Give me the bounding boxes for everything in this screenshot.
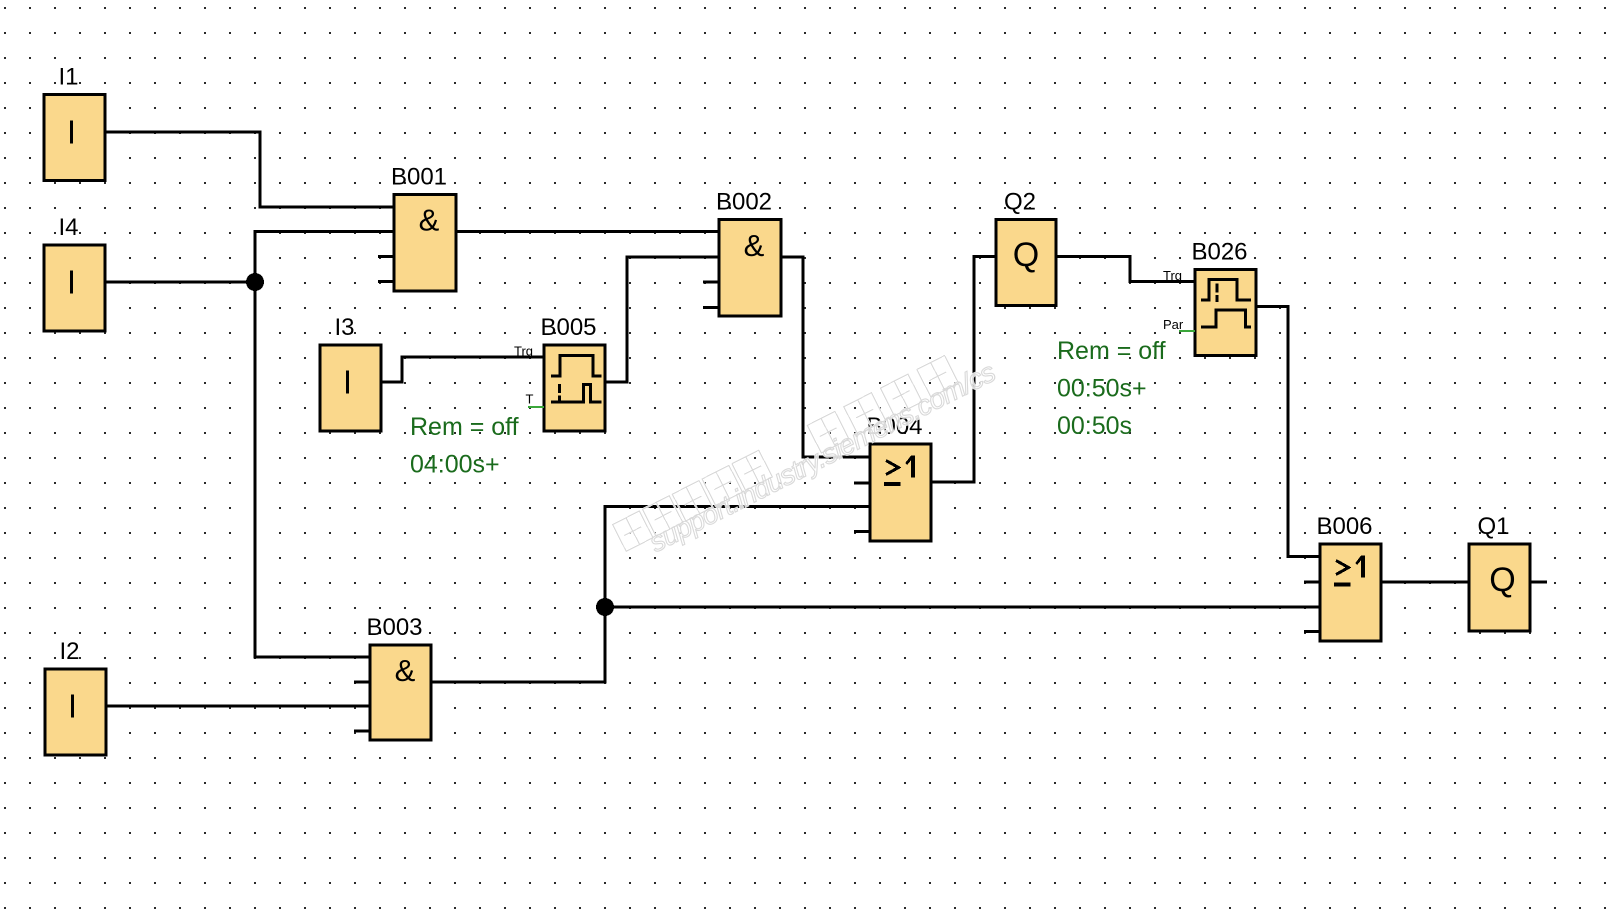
input I1	[44, 64, 105, 181]
input I2	[45, 638, 106, 755]
svg-text:B003: B003	[366, 614, 422, 641]
output Q1	[1469, 513, 1530, 631]
wire I4 to junction A	[105, 281, 255, 284]
svg-text:B026: B026	[1191, 239, 1247, 266]
parameter stub Par of B026	[1179, 330, 1195, 332]
wire junction A to B003 input1	[255, 282, 370, 657]
node A junction dot	[246, 273, 264, 291]
AND gate B003	[354, 614, 431, 740]
svg-text:B001: B001	[391, 164, 447, 191]
svg-text:Trg: Trg	[1163, 268, 1182, 283]
svg-text:&: &	[419, 203, 440, 238]
wire B026 output to B006 input1	[1256, 307, 1320, 557]
unused input stubs of B006	[1304, 582, 1320, 632]
svg-text:Q: Q	[1013, 236, 1039, 274]
svg-text:Trg: Trg	[514, 344, 533, 359]
parameter stub T of B005	[528, 406, 544, 408]
svg-text:00:50s+: 00:50s+	[1057, 375, 1147, 403]
wire I2 to B003 input3	[106, 705, 370, 708]
svg-text:Q: Q	[1489, 561, 1515, 599]
AND gate B002	[703, 189, 781, 317]
OR gate B004	[854, 413, 931, 541]
unused input stubs of B001	[378, 257, 394, 282]
svg-text:Par: Par	[1163, 317, 1184, 332]
svg-text:00:50s: 00:50s	[1057, 412, 1132, 440]
wire B002 output to B004 input1	[781, 257, 870, 457]
node B junction dot	[596, 598, 614, 616]
svg-text:I1: I1	[58, 64, 78, 91]
wire B004 output to Q2 input	[930, 257, 996, 483]
wire B006 output to Q1 input	[1381, 581, 1469, 584]
svg-text:I4: I4	[58, 214, 78, 241]
OR gate B006	[1304, 513, 1381, 641]
AND gate B001	[378, 164, 456, 292]
svg-text:I2: I2	[59, 638, 79, 665]
svg-text:Q1: Q1	[1477, 513, 1509, 540]
svg-text:B002: B002	[716, 189, 772, 216]
wire B005 output to B002 input2	[605, 257, 719, 382]
wire junction B to B006 input3	[605, 606, 1320, 609]
svg-text:I3: I3	[334, 314, 354, 341]
svg-text:&: &	[395, 653, 416, 688]
svg-text:Rem = off: Rem = off	[410, 413, 519, 441]
pulse generator B026	[1163, 239, 1256, 356]
unused input stubs of B002	[703, 282, 719, 308]
svg-text:Q2: Q2	[1004, 189, 1036, 216]
svg-text:04:00s+: 04:00s+	[410, 451, 500, 479]
svg-text:Rem = off: Rem = off	[1057, 337, 1166, 365]
input I4	[44, 214, 105, 331]
svg-text:B005: B005	[540, 314, 596, 341]
unused input stubs of B003	[354, 682, 370, 731]
svg-text:T: T	[526, 392, 534, 407]
svg-text:&: &	[744, 228, 765, 263]
wire Q2 output to B026 Trg	[1056, 257, 1195, 282]
output Q2	[996, 189, 1056, 306]
pulse relay B005	[514, 314, 605, 431]
wire I1 to B001 input1	[105, 132, 394, 207]
input I3	[320, 314, 381, 431]
wire junction B to B004 input3	[605, 507, 870, 608]
wire B003 output to junction B	[430, 607, 605, 682]
svg-text:B006: B006	[1316, 513, 1372, 540]
wire B001 output to B002 input1	[456, 230, 719, 233]
watermark	[613, 339, 1001, 570]
wire I3 to B005 Trg	[380, 357, 544, 382]
wire junction A to B001 input2	[255, 232, 394, 283]
unused input stubs of B004	[854, 483, 870, 532]
wire Q1 output stub	[1530, 581, 1547, 584]
